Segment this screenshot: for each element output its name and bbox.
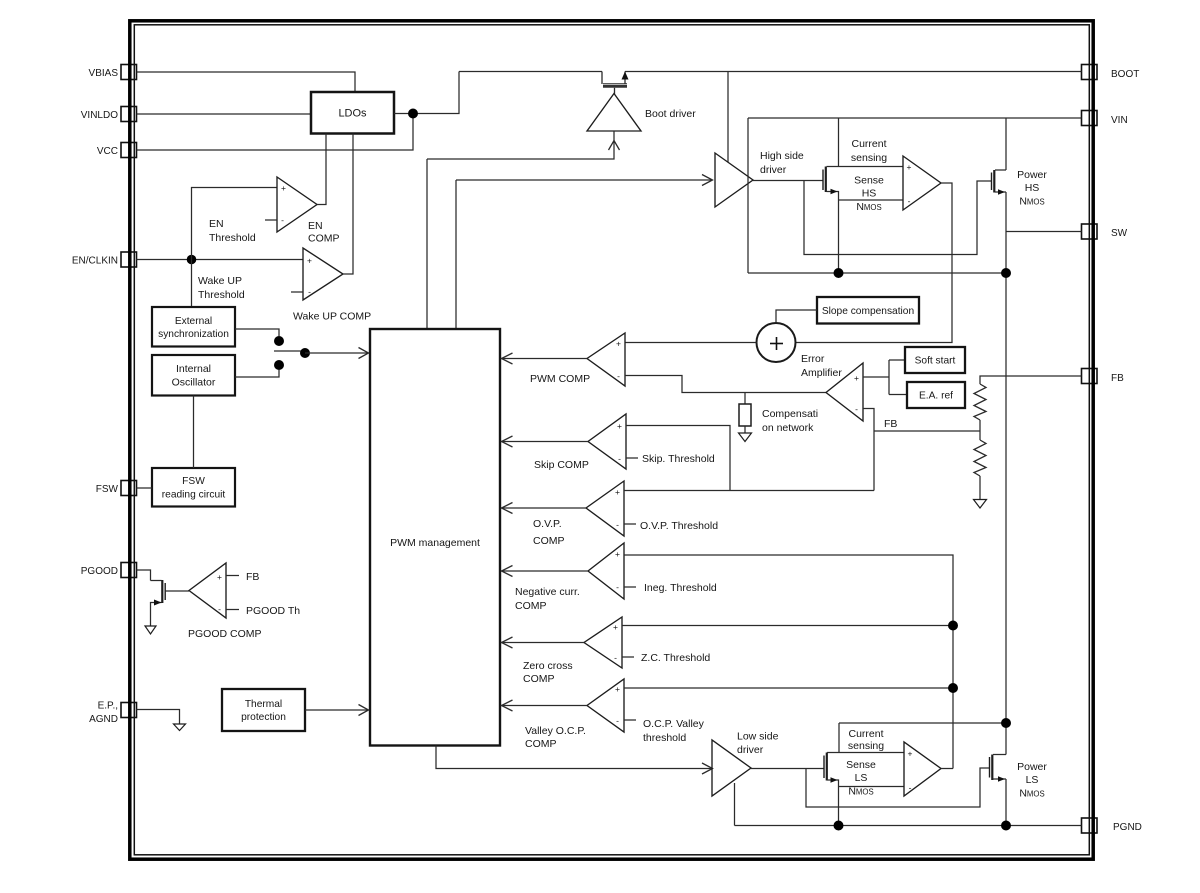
wire LS driver output to sense gate bbox=[751, 768, 824, 770]
wire neg comp output bbox=[501, 570, 588, 572]
svg-text:EN: EN bbox=[308, 220, 323, 232]
svg-text:O.V.P. Threshold: O.V.P. Threshold bbox=[640, 520, 718, 532]
wire error amp output to PWM comp - bbox=[625, 376, 826, 393]
label Compensation network bbox=[762, 408, 818, 434]
wire OVP comp output bbox=[501, 507, 586, 509]
svg-text:LS: LS bbox=[855, 772, 868, 784]
pin square SW (right) bbox=[1082, 224, 1098, 239]
svg-text:NMOS: NMOS bbox=[856, 201, 881, 213]
svg-text:Thermal: Thermal bbox=[245, 699, 282, 710]
label Power LS NMOS bbox=[1017, 761, 1047, 800]
wire ZC comp - stub bbox=[622, 656, 634, 658]
External synchronization box bbox=[152, 307, 235, 347]
svg-text:+: + bbox=[617, 421, 622, 431]
wire VIN down to sense HS drain bbox=[838, 118, 840, 167]
comparator O.V.P. COMP bbox=[586, 481, 624, 536]
arrow OCP comp into PWM management bbox=[502, 700, 513, 711]
wire EN/CLKIN down to external sync bbox=[191, 260, 193, 308]
wire neg comp + to LS sense line bbox=[624, 555, 953, 769]
svg-text:-: - bbox=[281, 215, 284, 225]
svg-text:Oscillator: Oscillator bbox=[172, 376, 216, 388]
wire divider to ground bbox=[979, 476, 981, 500]
svg-text:sensing: sensing bbox=[848, 740, 884, 752]
wire PWM to boot driver vertical bbox=[426, 159, 428, 329]
wire HS driver output to sense gate bbox=[753, 180, 823, 182]
svg-text:+: + bbox=[908, 749, 913, 759]
node ZC sense junction bbox=[948, 621, 958, 631]
svg-text:COMP: COMP bbox=[515, 600, 547, 612]
svg-text:HS: HS bbox=[862, 188, 877, 200]
svg-text:Compensati: Compensati bbox=[762, 408, 818, 420]
svg-text:COMP: COMP bbox=[523, 673, 555, 685]
svg-text:EN: EN bbox=[209, 218, 224, 230]
Thermal protection box bbox=[222, 689, 305, 731]
svg-text:Amplifier: Amplifier bbox=[801, 367, 842, 379]
wire PWM to high side driver vertical bbox=[455, 180, 457, 329]
svg-text:-: - bbox=[909, 783, 912, 793]
wire skip comp + to FB line bbox=[626, 426, 730, 491]
arrow into low side driver bbox=[702, 763, 713, 774]
svg-text:O.C.P. Valley: O.C.P. Valley bbox=[643, 718, 705, 730]
svg-text:BOOT: BOOT bbox=[1111, 69, 1139, 80]
comparator Skip COMP bbox=[588, 414, 626, 469]
wire FB node to divider bbox=[874, 430, 980, 432]
transistor Sense LS NMOS bbox=[824, 753, 827, 781]
svg-text:E.P.,: E.P., bbox=[98, 701, 118, 712]
wire boot driver input bbox=[427, 131, 614, 159]
svg-text:-: - bbox=[618, 454, 621, 464]
wire compensation to ground bbox=[744, 426, 746, 433]
svg-text:sensing: sensing bbox=[851, 152, 887, 164]
wire VIN down to power HS drain bbox=[1005, 118, 1007, 170]
label Current sensing (HS) bbox=[851, 138, 887, 164]
svg-text:VINLDO: VINLDO bbox=[81, 110, 118, 121]
arrow OVP comp into PWM management bbox=[502, 503, 513, 514]
svg-text:Power: Power bbox=[1017, 761, 1047, 773]
svg-text:Current: Current bbox=[851, 138, 886, 150]
svg-text:Threshold: Threshold bbox=[198, 289, 245, 301]
op-amp boot driver buffer bbox=[587, 94, 641, 132]
svg-text:+: + bbox=[615, 549, 620, 559]
pin label E.P., AGND bbox=[89, 701, 118, 726]
label Wake UP Threshold bbox=[198, 275, 245, 301]
svg-text:-: - bbox=[617, 371, 620, 381]
svg-text:-: - bbox=[616, 582, 619, 592]
pin square FSW (left) bbox=[121, 481, 137, 496]
svg-text:Internal: Internal bbox=[176, 363, 211, 375]
svg-text:FSW: FSW bbox=[182, 476, 205, 487]
wire error amp - to FB node bbox=[863, 409, 874, 491]
wire sense LS source to PGND bbox=[827, 780, 839, 826]
svg-text:+: + bbox=[613, 622, 618, 632]
svg-text:HS: HS bbox=[1025, 182, 1040, 194]
label Power HS NMOS bbox=[1017, 169, 1047, 208]
wire BOOT rail right segment to BOOT pin bbox=[625, 71, 1082, 73]
arrow skip comp into PWM management bbox=[502, 436, 513, 447]
Internal Oscillator box bbox=[152, 355, 235, 396]
wire LDO output to BOOT rail bbox=[394, 72, 459, 114]
svg-text:Soft start: Soft start bbox=[915, 356, 956, 367]
label O.V.P. COMP bbox=[533, 518, 565, 547]
wire ZC comp + line bbox=[622, 625, 953, 627]
arrow PWM comp into PWM management bbox=[502, 353, 513, 364]
wire VINLDO to LDOs bbox=[137, 113, 312, 115]
pin square PGOOD (left) bbox=[121, 563, 137, 578]
wire BOOT rail left segment bbox=[459, 71, 602, 73]
node HS bulk/sense junction bbox=[834, 268, 844, 278]
arrow sense HS source bbox=[831, 189, 838, 195]
svg-text:protection: protection bbox=[241, 712, 286, 723]
svg-text:SW: SW bbox=[1111, 228, 1128, 239]
wire ZC comp output bbox=[501, 642, 584, 644]
wire high side driver input bbox=[456, 179, 711, 181]
op-amp Error Amplifier bbox=[826, 363, 863, 421]
transistor Power LS NMOS bbox=[990, 755, 993, 781]
wire to soft start bbox=[889, 359, 905, 361]
ground PGOOD transistor source bbox=[145, 626, 156, 634]
wire VIN rail bbox=[748, 117, 1082, 119]
svg-text:+: + bbox=[907, 162, 912, 172]
wire LS sense comp output bbox=[941, 768, 953, 770]
comparator EN COMP bbox=[277, 177, 317, 232]
svg-text:Negative curr.: Negative curr. bbox=[515, 586, 580, 598]
svg-text:NMOS: NMOS bbox=[1019, 196, 1044, 208]
label Sense LS NMOS bbox=[846, 759, 876, 798]
wire PGOOD comp + stub (FB) bbox=[226, 575, 239, 577]
wire reference bracket bbox=[888, 360, 890, 395]
wire sense HS source down to bulk rail bbox=[827, 192, 839, 274]
svg-text:threshold: threshold bbox=[643, 732, 686, 744]
svg-text:Ineg. Threshold: Ineg. Threshold bbox=[644, 582, 717, 594]
comparator PWM COMP bbox=[587, 333, 625, 386]
pin square VCC (left) bbox=[121, 143, 137, 158]
wire EN comp output to LDOs bbox=[317, 134, 326, 205]
wire power LS source stub bbox=[993, 778, 1006, 780]
node switch throw lower bbox=[274, 360, 284, 370]
wire EN/CLKIN up to EN comp + input bbox=[192, 188, 278, 260]
svg-text:NMOS: NMOS bbox=[848, 786, 873, 798]
node switch throw upper bbox=[274, 336, 284, 346]
svg-text:NMOS: NMOS bbox=[1019, 788, 1044, 800]
wire internal osc to switch bbox=[235, 370, 279, 377]
ground FB divider bbox=[974, 500, 987, 509]
arrow into high side driver bbox=[702, 175, 713, 186]
wire PGOOD pin to transistor drain bbox=[137, 570, 151, 581]
wire SW node vertical bbox=[1005, 192, 1007, 755]
svg-text:-: - bbox=[908, 196, 911, 206]
svg-text:COMP: COMP bbox=[525, 738, 557, 750]
wire wake comp - threshold stub bbox=[291, 291, 303, 293]
wire HS bulk rail bbox=[748, 272, 1006, 274]
wire thermal protection to PWM bbox=[305, 709, 368, 711]
wire sense HS source to comparator - bbox=[839, 199, 904, 201]
comparator PGOOD COMP bbox=[189, 563, 226, 618]
node LDO output junction bbox=[408, 109, 418, 119]
wire error amp + to references bbox=[863, 376, 889, 378]
wire OCP comp output bbox=[501, 705, 587, 707]
svg-text:driver: driver bbox=[737, 744, 764, 756]
comparator Wake UP COMP bbox=[303, 248, 343, 300]
svg-text:-: - bbox=[616, 520, 619, 530]
comparator Zero cross COMP bbox=[584, 617, 622, 668]
wire sense LS source to comparator - bbox=[839, 786, 905, 788]
svg-text:Z.C. Threshold: Z.C. Threshold bbox=[641, 652, 710, 664]
label EN COMP bbox=[308, 220, 340, 245]
arrow power LS source bbox=[998, 776, 1005, 782]
wire BOOT rail branch down to high side driver bbox=[727, 72, 729, 163]
ground compensation network bbox=[739, 433, 752, 442]
wire wake comp output to LDOs bbox=[343, 134, 353, 275]
svg-text:EN/CLKIN: EN/CLKIN bbox=[72, 256, 118, 267]
label Current sensing (LS) bbox=[848, 728, 884, 752]
label Low side driver bbox=[737, 731, 779, 757]
svg-text:driver: driver bbox=[760, 164, 787, 176]
wire OCP comp + line bbox=[624, 687, 953, 689]
svg-text:PGND: PGND bbox=[1113, 822, 1142, 833]
wire power HS source stub bbox=[995, 191, 1006, 193]
svg-text:Sense: Sense bbox=[846, 759, 876, 771]
svg-text:COMP: COMP bbox=[308, 233, 340, 245]
svg-text:VIN: VIN bbox=[1111, 115, 1128, 126]
wire oscillator to FSW reading circuit bbox=[193, 396, 195, 469]
arrow ZC comp into PWM management bbox=[502, 637, 513, 648]
wire OVP comp - stub bbox=[624, 523, 636, 525]
svg-text:FB: FB bbox=[246, 571, 259, 583]
wire to EA ref bbox=[889, 394, 907, 396]
wire skip comp - stub bbox=[626, 457, 638, 459]
wire summing node to PWM comp + bbox=[625, 342, 757, 344]
wire LS gate rail to power gate bbox=[806, 768, 989, 807]
svg-text:-: - bbox=[855, 404, 858, 414]
Slope compensation box bbox=[817, 297, 919, 324]
svg-text:-: - bbox=[308, 287, 311, 297]
label Valley O.C.P. COMP bbox=[525, 725, 586, 750]
svg-text:Wake UP COMP: Wake UP COMP bbox=[293, 311, 371, 323]
svg-text:FSW: FSW bbox=[96, 484, 119, 495]
arrow power HS source bbox=[998, 189, 1005, 195]
pin square VIN (right) bbox=[1082, 111, 1098, 126]
wire HS gate rail to power gate bbox=[804, 181, 991, 255]
svg-text:+: + bbox=[281, 183, 286, 193]
wire LS driver ground leg bbox=[734, 783, 736, 826]
wire sense LS drain to comparator + bbox=[827, 752, 904, 754]
wire FSW pin to FSW box bbox=[137, 487, 153, 489]
svg-text:-: - bbox=[616, 716, 619, 726]
wire PGOOD comp - stub (PGOOD Th) bbox=[226, 609, 239, 611]
LDOs box bbox=[311, 92, 394, 134]
svg-text:FB: FB bbox=[884, 418, 897, 430]
transistor boot switch bbox=[602, 72, 629, 95]
PWM management box bbox=[370, 329, 500, 746]
svg-text:synchronization: synchronization bbox=[158, 329, 229, 340]
Soft start box bbox=[905, 347, 965, 373]
arrow into PWM management (clock) bbox=[359, 348, 369, 359]
transistor Sense HS NMOS bbox=[823, 167, 826, 193]
pin square BOOT (right) bbox=[1082, 65, 1098, 80]
FSW reading circuit box bbox=[152, 468, 235, 507]
pin square VBIAS (left) bbox=[121, 65, 137, 80]
transistor PGOOD open-drain NMOS bbox=[151, 580, 190, 626]
E.A. ref box bbox=[907, 382, 965, 408]
svg-text:reading circuit: reading circuit bbox=[162, 489, 226, 500]
comparator Valley O.C.P. COMP bbox=[587, 679, 624, 732]
svg-text:+: + bbox=[616, 339, 621, 349]
ground AGND bbox=[174, 724, 186, 731]
svg-text:FB: FB bbox=[1111, 373, 1124, 384]
op-amp low side driver bbox=[712, 740, 751, 796]
svg-text:COMP: COMP bbox=[533, 535, 565, 547]
node LS power drain junction bbox=[1001, 718, 1011, 728]
wire LS rail down to sense drain bbox=[838, 723, 840, 753]
arrow sense LS source bbox=[831, 777, 838, 783]
svg-text:-: - bbox=[614, 653, 617, 663]
wire switch blade bbox=[274, 350, 301, 352]
svg-text:Skip. Threshold: Skip. Threshold bbox=[642, 453, 715, 465]
svg-text:VBIAS: VBIAS bbox=[89, 68, 119, 79]
svg-text:Error: Error bbox=[801, 353, 825, 365]
node OCP sense junction bbox=[948, 683, 958, 693]
svg-text:+: + bbox=[217, 572, 222, 582]
svg-text:PWM COMP: PWM COMP bbox=[530, 373, 590, 385]
op-amp high side driver bbox=[715, 153, 753, 207]
wire HS frame left vertical bbox=[747, 118, 749, 273]
wire power LS drain stub bbox=[993, 754, 1006, 756]
label Error Amplifier bbox=[801, 353, 842, 379]
svg-text:Valley O.C.P.: Valley O.C.P. bbox=[525, 725, 586, 737]
wire FB pin to divider top bbox=[980, 376, 1082, 384]
svg-text:+: + bbox=[615, 684, 620, 694]
pin square PGND (right) bbox=[1082, 818, 1098, 833]
svg-text:-: - bbox=[218, 604, 221, 614]
resistor FB divider lower bbox=[974, 440, 986, 476]
transistor Power HS NMOS bbox=[992, 170, 995, 193]
svg-text:External: External bbox=[175, 316, 212, 327]
svg-text:AGND: AGND bbox=[89, 714, 118, 725]
svg-text:Boot driver: Boot driver bbox=[645, 108, 696, 120]
IC inner border frame bbox=[134, 25, 1089, 855]
pin square FB (right) bbox=[1082, 369, 1098, 384]
svg-text:Threshold: Threshold bbox=[209, 232, 256, 244]
wire OCP comp - stub bbox=[624, 719, 636, 721]
node PGND power junction bbox=[1001, 821, 1011, 831]
wire SW pin bbox=[1006, 231, 1082, 233]
wire divider middle bbox=[979, 420, 981, 440]
wire neg comp - stub bbox=[624, 586, 636, 588]
wire slope compensation to summing node bbox=[776, 310, 817, 323]
IC outer border frame bbox=[130, 21, 1093, 859]
svg-text:PGOOD COMP: PGOOD COMP bbox=[188, 628, 262, 640]
resistor compensation network bbox=[739, 404, 751, 426]
svg-text:+: + bbox=[615, 487, 620, 497]
label O.C.P. Valley threshold bbox=[643, 718, 705, 744]
svg-text:Low side: Low side bbox=[737, 731, 779, 743]
wire EN/CLKIN to wake up comp bbox=[137, 259, 304, 261]
wire VCC up to LDO output node bbox=[137, 114, 414, 151]
svg-text:PGOOD Th: PGOOD Th bbox=[246, 605, 300, 617]
wire external sync to switch bbox=[235, 329, 279, 336]
wire compensation branch bbox=[744, 393, 746, 405]
svg-text:Power: Power bbox=[1017, 169, 1047, 181]
svg-text:+: + bbox=[854, 373, 859, 383]
wire PWM comp output bbox=[501, 358, 587, 360]
wire switch to PWM management bbox=[305, 352, 368, 354]
pin square EN/CLKIN (left) bbox=[121, 252, 137, 267]
op-amp LS current sense comparator bbox=[904, 742, 941, 796]
label Zero cross COMP bbox=[523, 660, 573, 685]
svg-text:VCC: VCC bbox=[97, 146, 118, 157]
node PGND sense junction bbox=[834, 821, 844, 831]
wire skip comp output bbox=[501, 441, 588, 443]
arrow neg comp into PWM management bbox=[502, 566, 513, 577]
summing node circle bbox=[757, 323, 796, 362]
wire LS rail bbox=[839, 722, 1006, 724]
wire PGND rail bbox=[735, 825, 1082, 827]
wire AGND pin to ground bbox=[137, 710, 180, 725]
label Sense HS NMOS bbox=[854, 175, 884, 214]
op-amp HS current sense comparator bbox=[903, 156, 941, 210]
svg-text:Slope compensation: Slope compensation bbox=[822, 306, 914, 317]
node switch common bbox=[300, 348, 310, 358]
svg-text:Zero cross: Zero cross bbox=[523, 660, 573, 672]
pin square EP_AGND (left) bbox=[121, 703, 137, 718]
wire HS sense comp output to summing node bbox=[796, 183, 953, 343]
wire power LS source to PGND bbox=[1005, 779, 1007, 826]
svg-text:E.A. ref: E.A. ref bbox=[919, 391, 953, 402]
svg-text:High side: High side bbox=[760, 150, 804, 162]
comparator Negative current COMP bbox=[588, 543, 624, 599]
svg-text:PWM management: PWM management bbox=[390, 537, 480, 549]
arrow into PWM management (thermal) bbox=[359, 705, 369, 716]
label High side driver bbox=[760, 150, 804, 176]
wire VBIAS to LDOs top bbox=[137, 72, 356, 92]
svg-text:Skip COMP: Skip COMP bbox=[534, 459, 589, 471]
node HS bulk/power junction bbox=[1001, 268, 1011, 278]
svg-text:Current: Current bbox=[848, 728, 883, 740]
label Negative curr. COMP bbox=[515, 586, 580, 612]
wire OVP comp + FB sense line bbox=[624, 490, 874, 492]
svg-text:LS: LS bbox=[1026, 774, 1039, 786]
svg-text:Wake UP: Wake UP bbox=[198, 275, 242, 287]
wire EN comp - threshold stub bbox=[265, 219, 277, 221]
arrow into boot driver bbox=[609, 141, 620, 151]
svg-text:on network: on network bbox=[762, 422, 814, 434]
svg-text:PGOOD: PGOOD bbox=[81, 566, 118, 577]
svg-text:O.V.P.: O.V.P. bbox=[533, 518, 562, 530]
svg-text:+: + bbox=[307, 256, 312, 266]
svg-text:LDOs: LDOs bbox=[338, 107, 367, 119]
wire sense HS drain to comparator + bbox=[827, 166, 904, 168]
pin square VINLDO (left) bbox=[121, 107, 137, 122]
resistor FB divider upper bbox=[974, 384, 986, 420]
node EN/CLKIN junction bbox=[187, 255, 197, 265]
wire power HS drain stub bbox=[995, 169, 1006, 171]
wire PWM management to low side driver bbox=[436, 746, 711, 769]
svg-text:Sense: Sense bbox=[854, 175, 884, 187]
